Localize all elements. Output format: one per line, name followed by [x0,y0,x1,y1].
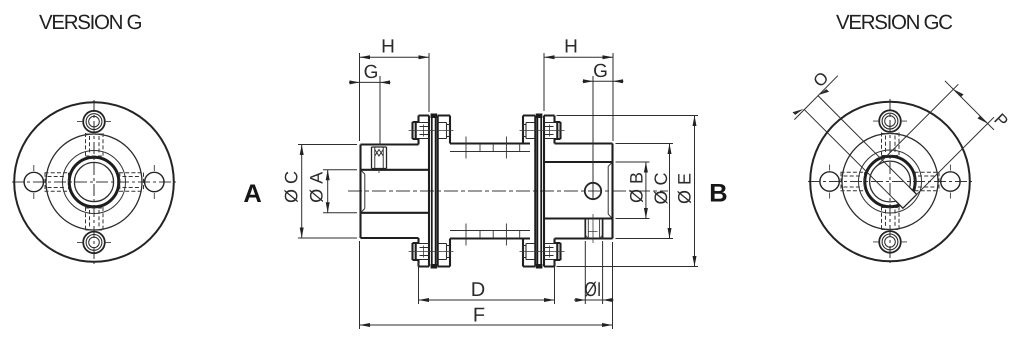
hub circle [46,134,142,230]
right hole cross ticks [949,165,951,199]
right bolt head top [555,122,561,139]
title VERSION GC [836,15,952,30]
hidden slot top [86,133,104,157]
hidden slot right [119,173,144,192]
left hole cross ticks [33,165,35,199]
arrows A left [326,170,330,213]
hidden slot left [841,172,866,191]
label G left [365,65,377,78]
dim OI line [574,299,614,301]
dim C right line [669,144,671,239]
dim E right line [694,116,696,267]
spacer tube [450,144,530,239]
flange outer circle [810,102,970,262]
right disc pack [537,114,541,269]
arrows B right [644,162,648,219]
dim H right extension lines [544,53,613,141]
bottom-right bolt centerline [520,246,565,258]
radial hole circle OI [585,183,601,199]
dim C left line [301,145,303,239]
bottom bolt hole [879,231,901,253]
radial hole bottom notch [585,219,602,239]
dim H right line [544,56,613,58]
right bore chamfer [608,162,612,219]
spacer tube weld ticks [466,137,520,246]
dim C right extension lines [616,144,674,239]
label P [994,113,1009,128]
dim F line [360,324,613,326]
dimension texts [284,39,691,321]
left hub flange [419,116,430,267]
dim B right line [645,162,647,219]
arrows F [360,323,613,327]
left hole [24,172,43,191]
bottom-left bolt joint detail [419,244,450,260]
set screw hidden line [376,169,382,174]
top-right bolt centerline [520,125,565,137]
right hub barrel [555,144,613,239]
label O [812,71,829,88]
label D [472,282,484,296]
bore chamfer circle [865,156,915,206]
top bolt hole [83,111,105,133]
left bolt head top [413,122,419,139]
dim B right extension lines [616,162,650,219]
spacer tube bore lines [450,152,530,231]
arrows OI (outside) [575,298,612,302]
label OC right [654,173,667,204]
right hub bore [544,162,613,219]
dim H left extension lines [360,53,430,141]
dim G right line [583,77,624,89]
right hole [941,172,960,191]
set screw G [372,147,387,169]
arrows C left [300,145,304,239]
left hub barrel [361,145,419,239]
dim P line [945,81,994,130]
dim E right extension lines [557,116,699,267]
left disc pack caps [431,114,438,119]
centerline horizontal [808,181,972,183]
keyway white mask [893,185,917,209]
left bolt head bottom [413,243,419,260]
spacer left flange [438,116,450,267]
top-left bolt joint detail [419,123,450,139]
label H left [383,39,394,52]
label F [475,308,485,322]
notch centerline [589,214,598,243]
arrows H left [360,55,430,59]
right hole [145,172,164,191]
label OA left [310,172,323,202]
top hole cross ticks [77,121,111,123]
centerline horizontal [12,181,176,183]
arrows D [419,298,555,302]
top-left bolt centerline [409,125,454,137]
label H right [566,39,577,52]
hidden slot top [882,133,900,157]
bottom hole cross ticks [77,241,111,243]
label B [711,184,727,202]
dim A left line [327,170,329,213]
centerline vertical [93,100,95,264]
left hole [820,172,839,191]
label OB right [630,173,643,202]
arrows G right (outside) [583,79,623,83]
left disc pack [432,114,436,269]
arrows G left (outside) [350,80,391,84]
keyway width extension lines (O) [794,76,994,202]
dim G right extension line [592,76,594,200]
label OC left [284,172,297,203]
label OI [585,282,600,297]
bore circle [74,162,113,201]
arrows P (inside) [953,89,987,123]
dim G left line [349,77,391,89]
spacer right flange [523,116,535,267]
bore chamfer circle [69,157,119,207]
bottom bolt hole [83,232,105,254]
dim D extension lines [419,262,555,304]
label G right [594,64,606,77]
counterbore circle [859,150,922,213]
hidden slot left [45,173,70,192]
title VERSION G [39,15,141,30]
right hub flange [544,116,555,267]
dimension arrowheads [300,55,697,327]
centerline vertical [889,99,891,263]
top-right bolt joint detail [523,123,555,139]
dim D line [419,299,555,301]
notch thread lines [585,219,602,239]
bore circle [870,161,911,202]
left bore chamfer [361,170,365,213]
dim F extension lines [360,241,613,329]
counterbore circle [63,151,126,214]
dim O line [794,76,837,120]
arrows E right [693,116,697,267]
top hole cross ticks [873,120,907,122]
left hole cross ticks [829,165,831,199]
left hub bore [361,170,430,213]
arrows C right [668,144,672,239]
right hole cross ticks [153,165,155,199]
bottom-left bolt centerline [409,246,454,258]
hub circle [842,134,938,230]
hidden slot bottom [86,207,104,231]
dim H left line [360,56,430,58]
label A [244,184,261,202]
dim C left extension lines [298,145,357,239]
bottom-right bolt joint detail [523,244,555,260]
top bolt hole [879,110,901,132]
bottom hole cross ticks [873,241,907,243]
right disc pack caps [536,114,543,119]
flange outer circle [14,102,174,262]
dim G left extension line [379,76,381,145]
hidden slot right [915,172,940,191]
keyway depth extension lines (P) [876,84,994,201]
arrows O (outside) [793,89,988,123]
dim OI extension lines [585,241,602,304]
right bolt head bottom [555,243,561,260]
keyway outline [896,187,917,208]
dim A left extension lines [323,170,357,213]
main centerline [348,190,668,192]
hidden slot bottom [882,207,900,231]
arrows H right [544,55,613,59]
label OE right [678,174,691,204]
